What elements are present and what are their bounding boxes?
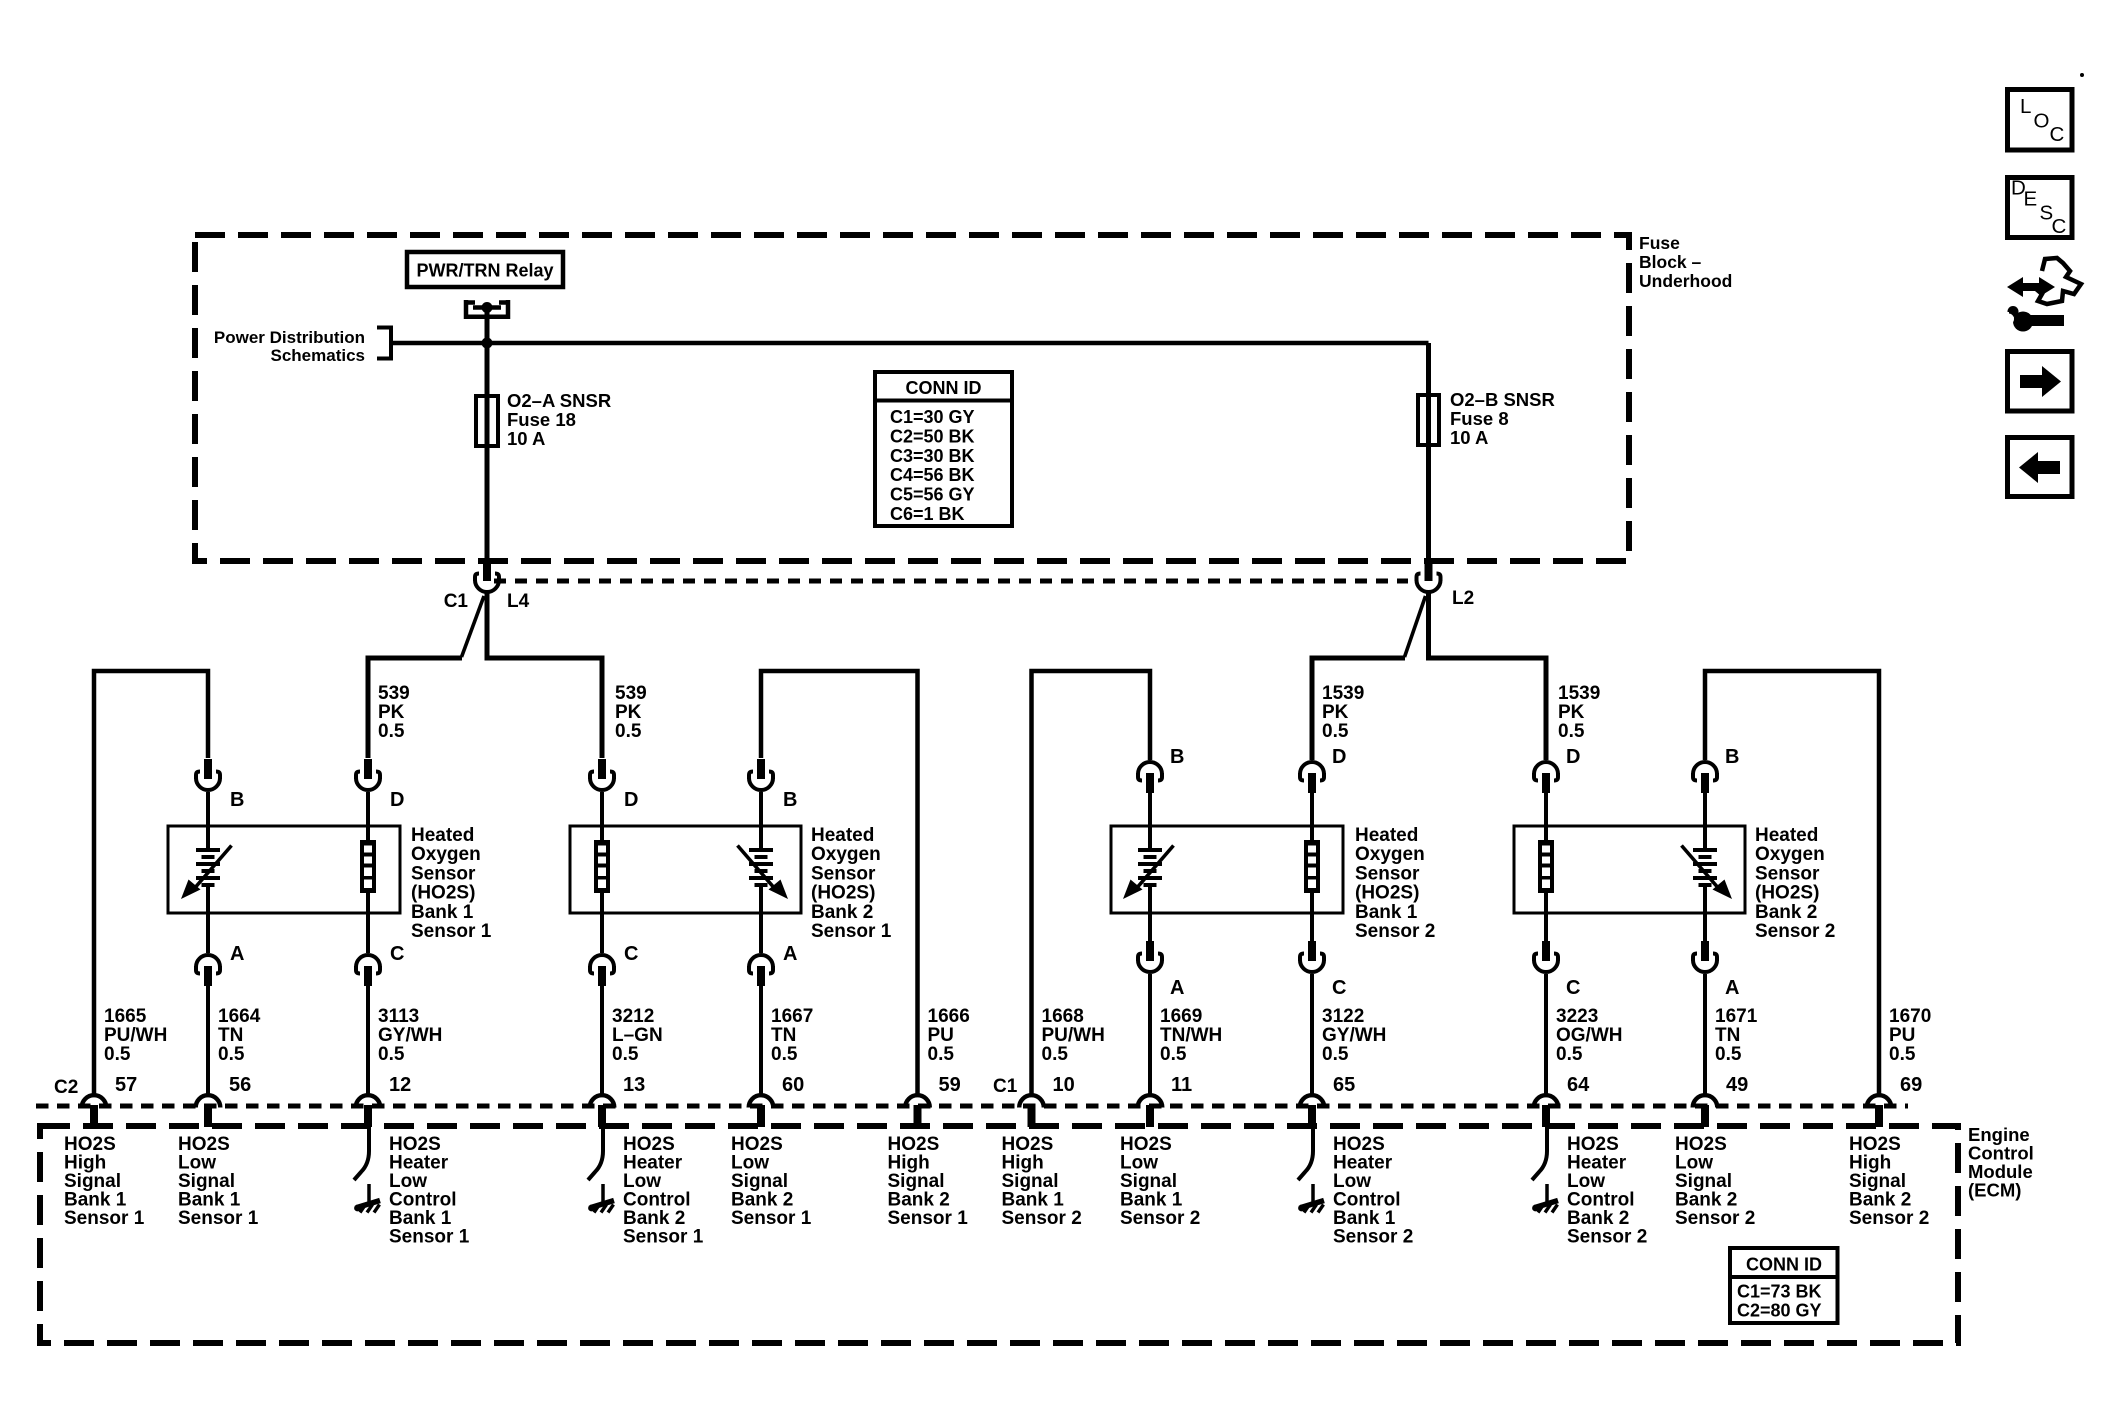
svg-text:C: C (390, 943, 404, 965)
ground (ECM internal) pin 12 (354, 1126, 380, 1213)
svg-text:PWR/TRN Relay: PWR/TRN Relay (416, 261, 553, 281)
pin B HO2S B1S1 (196, 759, 220, 790)
svg-text:D: D (1566, 746, 1580, 768)
ECM pin 12 connector (356, 1095, 381, 1127)
pin C HO2S B1S2 (1300, 941, 1324, 972)
svg-text:65: 65 (1333, 1074, 1355, 1096)
ECM pin 56 connector (196, 1095, 221, 1127)
wire: box1 A lead (206, 913, 210, 953)
wire: HO2S B2S1 pin B link to ECM 59 (761, 671, 918, 1094)
harness dotted line between connectors (494, 579, 1408, 584)
svg-text:C: C (2050, 123, 2065, 146)
svg-text:B: B (783, 789, 797, 811)
wire: L2 to PK branch (right) (1429, 592, 1547, 760)
ground (ECM internal) pin 64 (1532, 1126, 1558, 1213)
wire: box4 A lead (1703, 913, 1707, 941)
svg-text:C1=73 BKC2=80 GY: C1=73 BKC2=80 GY (1737, 1282, 1822, 1321)
relay contact symbol (464, 300, 510, 319)
wire: box3 C lead (1310, 913, 1314, 941)
connector L2 pin and socket (1417, 561, 1441, 592)
battery element HO2S B1S1 (181, 826, 232, 913)
icon: schematic navigation (arrows and wrench) (1998, 258, 2081, 332)
battery element HO2S B2S1 (738, 826, 789, 913)
wire: HO2S B1S2 pin B link to ECM 10 (1032, 671, 1151, 1094)
pin B HO2S B2S1 (749, 759, 773, 790)
svg-text:A: A (1725, 977, 1739, 999)
svg-text:12: 12 (389, 1074, 411, 1096)
wire: right PK branch to HO2S B1S2 heater (1312, 658, 1405, 760)
svg-text:CONN ID: CONN ID (906, 378, 982, 398)
wire: HO2S B1S1 pin B link to ECM 57 (94, 671, 208, 1094)
svg-text:O: O (2034, 110, 2050, 133)
ECM dashed enclosure (40, 1126, 1958, 1343)
wire: box4 C lead (1544, 913, 1548, 941)
HO2S sensor box 1: Bank 1 Sensor 1 (168, 826, 400, 913)
svg-text:B: B (230, 789, 244, 811)
svg-text:CONN ID: CONN ID (1746, 1255, 1822, 1275)
svg-text:64: 64 (1567, 1074, 1590, 1096)
pin C HO2S B1S1 (356, 955, 380, 986)
ground (ECM internal) pin 65 (1298, 1126, 1324, 1213)
pin A HO2S B1S2 (1138, 941, 1162, 972)
svg-text:C1=30 GYC2=50 BKC3=30 BKC4=56: C1=30 GYC2=50 BKC3=30 BKC4=56 BKC5=56 GY… (890, 407, 975, 524)
svg-text:56: 56 (229, 1074, 251, 1096)
PWR/TRN Relay box (407, 252, 563, 287)
svg-text:A: A (783, 943, 797, 965)
fuse block underhood dashed enclosure (195, 235, 1629, 561)
wire: power corner down to fuse B and connector L2 (1426, 343, 1431, 562)
ECM pin 65 connector (1300, 1095, 1325, 1127)
ECM pin 64 connector (1534, 1095, 1559, 1127)
svg-text:B: B (1170, 746, 1184, 768)
pin D HO2S B1S1 (356, 759, 380, 790)
connector C1/L4 pin and socket (475, 561, 499, 592)
svg-text:L: L (2020, 95, 2031, 118)
svg-text:C: C (2052, 215, 2067, 238)
svg-text:59: 59 (939, 1074, 961, 1096)
svg-text:49: 49 (1726, 1074, 1748, 1096)
svg-text:C: C (624, 943, 638, 965)
pin D HO2S B2S2 (1534, 762, 1558, 793)
svg-text:C2: C2 (54, 1077, 78, 1098)
svg-text:D: D (624, 789, 638, 811)
svg-text:L2: L2 (1452, 588, 1474, 609)
wire: left PK branch to HO2S B1S1 heater (368, 658, 462, 758)
svg-text:E: E (2024, 188, 2038, 211)
icon: back arrow box (2008, 438, 2073, 497)
svg-text:D: D (1332, 746, 1346, 768)
ground (ECM internal) pin 13 (588, 1126, 614, 1213)
svg-text:C1: C1 (444, 591, 469, 612)
wire: relay contact to power junction (485, 307, 490, 343)
wire: diagonal branch at L2 (1405, 596, 1426, 657)
heater element HO2S B2S1 (594, 826, 610, 913)
ECM pin 57 connector (82, 1095, 107, 1127)
CONN ID table (fuse block) (875, 372, 1012, 526)
pin A HO2S B1S1 (196, 955, 220, 986)
wire: diagonal branch at L4 (462, 596, 485, 657)
ECM harness dotted line (36, 1104, 1908, 1109)
svg-text:D: D (390, 789, 404, 811)
wire: box2 C lead (600, 913, 604, 953)
svg-text:B: B (1725, 746, 1739, 768)
pin D HO2S B1S2 (1300, 762, 1324, 793)
ECM pin 13 connector (590, 1095, 615, 1127)
wire: HO2S B2S2 pin B link to ECM 69 (1705, 671, 1879, 1094)
HO2S sensor box 3: Bank 1 Sensor 2 (1111, 826, 1343, 913)
heater element HO2S B1S2 (1304, 826, 1320, 913)
ECM pin 10 connector (1019, 1095, 1044, 1127)
svg-text:C: C (1566, 977, 1580, 999)
svg-text:13: 13 (623, 1074, 645, 1096)
pin A HO2S B2S1 (749, 955, 773, 986)
pin B HO2S B2S2 (1693, 762, 1717, 793)
fuse O2-A SNSR Fuse 18 (476, 396, 498, 446)
ECM pin 59 connector (905, 1095, 930, 1127)
ECM pin 69 connector (1867, 1095, 1892, 1127)
pin D HO2S B2S1 (590, 759, 614, 790)
svg-text:C1: C1 (993, 1076, 1018, 1097)
icon: next arrow box (2008, 352, 2073, 412)
svg-text:10: 10 (1053, 1074, 1075, 1096)
icon: LOC box (2008, 90, 2073, 151)
pin C HO2S B2S1 (590, 955, 614, 986)
svg-text:11: 11 (1171, 1074, 1192, 1096)
svg-text:A: A (230, 943, 244, 965)
wire: box1 C lead (366, 913, 370, 953)
ECM pin 60 connector (749, 1095, 774, 1127)
svg-text:A: A (1170, 977, 1184, 999)
icon: DESC box (2008, 177, 2073, 239)
ECM pin 11 connector (1138, 1095, 1163, 1127)
battery element HO2S B1S2 (1123, 826, 1174, 913)
power feed wire (391, 341, 1429, 346)
heater element HO2S B2S2 (1538, 826, 1554, 913)
wire: junction down to fuse A and connector C1 (485, 343, 490, 562)
svg-text:69: 69 (1900, 1074, 1922, 1096)
svg-text:57: 57 (115, 1074, 137, 1096)
pin A HO2S B2S2 (1693, 941, 1717, 972)
pin C HO2S B2S2 (1534, 941, 1558, 972)
power distribution schematics bracket (377, 328, 391, 359)
svg-text:60: 60 (782, 1074, 804, 1096)
HO2S sensor box 2: Bank 2 Sensor 1 (570, 826, 801, 913)
wire: box2 A lead (759, 913, 763, 953)
heater element HO2S B1S1 (360, 826, 376, 913)
power junction dot (482, 338, 493, 349)
wire: box3 A lead (1148, 913, 1152, 941)
svg-text:C: C (1332, 977, 1346, 999)
svg-text:L4: L4 (507, 591, 530, 612)
speck (2080, 73, 2084, 77)
CONN ID table (ECM) (1730, 1248, 1838, 1323)
fuse O2-B SNSR Fuse 8 (1418, 395, 1439, 445)
HO2S sensor box 4: Bank 2 Sensor 2 (1514, 826, 1745, 913)
battery element HO2S B2S2 (1682, 826, 1733, 913)
ECM pin 49 connector (1693, 1095, 1718, 1127)
wire: C1/L4 to PK branch (left) (487, 592, 602, 758)
pin B HO2S B1S2 (1138, 762, 1162, 793)
